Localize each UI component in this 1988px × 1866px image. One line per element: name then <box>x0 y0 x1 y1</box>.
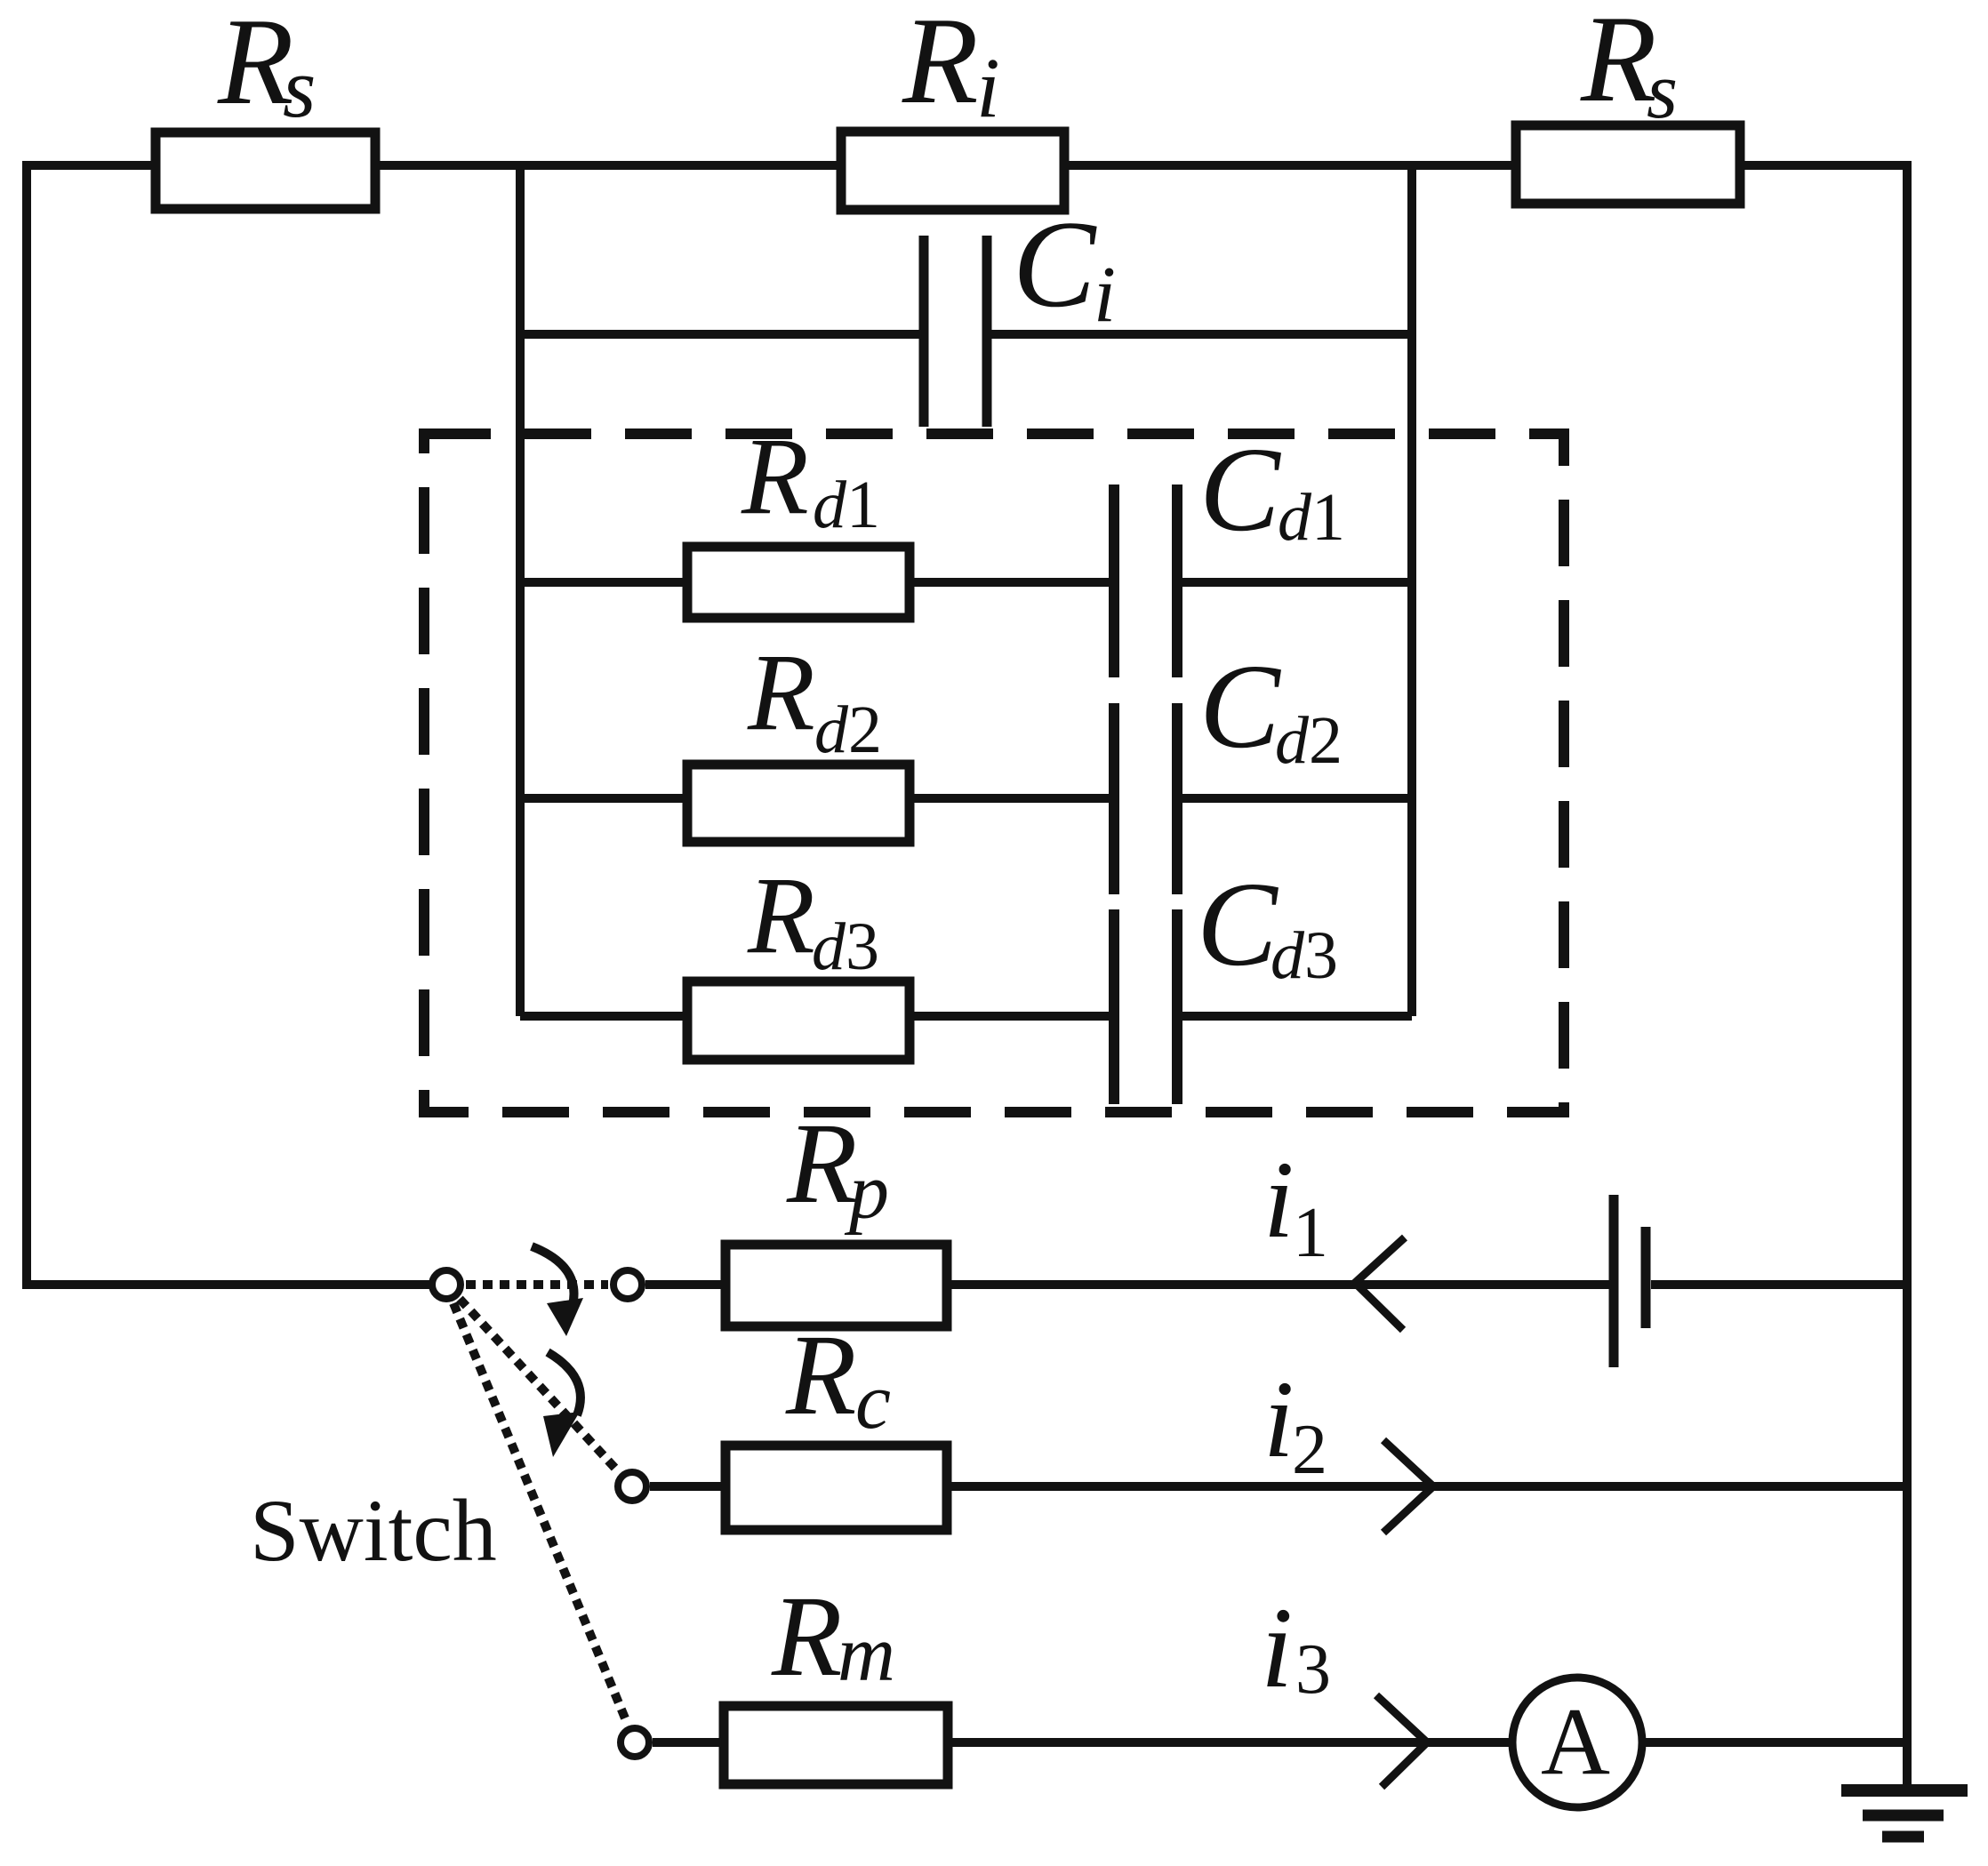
switch dashed link to position 3 <box>453 1303 628 1725</box>
wire right bus vertical <box>1407 165 1416 1016</box>
svg-text:R: R <box>771 1573 842 1701</box>
ammeter A <box>1512 1678 1642 1807</box>
svg-text:2: 2 <box>1309 703 1343 778</box>
wire branch 1 right <box>1181 578 1412 587</box>
wire i2 <box>650 1482 1907 1491</box>
wire top horizontal <box>22 161 1912 170</box>
resistor Rp <box>725 1245 947 1326</box>
svg-text:R: R <box>747 631 815 753</box>
svg-text:2: 2 <box>1292 1411 1327 1489</box>
svg-text:i: i <box>976 40 1000 135</box>
wire Ci right <box>990 330 1412 339</box>
wire right vertical <box>1903 161 1912 1790</box>
switch position 1 circle <box>613 1270 642 1299</box>
resistor Rd2 <box>687 765 910 842</box>
svg-text:C: C <box>1199 423 1281 557</box>
wire branch 3 left <box>520 1012 1111 1021</box>
svg-text:R: R <box>902 0 979 130</box>
svg-text:C: C <box>1013 196 1097 333</box>
wire i1 right of battery <box>1651 1280 1907 1289</box>
wire branch 3 right <box>1181 1012 1412 1021</box>
svg-text:c: c <box>855 1357 891 1446</box>
svg-text:R: R <box>1580 0 1657 128</box>
wire Ci left <box>520 330 921 339</box>
wire i3 left of ammeter <box>653 1738 1512 1747</box>
svg-text:R: R <box>786 1100 857 1228</box>
capacitor Cd2 plates <box>1109 703 1119 894</box>
resistor Rc <box>725 1446 947 1530</box>
resistor Ri <box>841 132 1064 210</box>
wire branch 2 right <box>1181 794 1412 803</box>
dashed box (electrode process) <box>424 434 1564 1112</box>
current arrow i1 <box>1355 1237 1405 1330</box>
svg-text:d: d <box>1271 918 1305 993</box>
svg-text:i: i <box>1094 251 1116 339</box>
svg-text:d: d <box>812 909 846 984</box>
resistor Rd3 <box>687 981 910 1060</box>
wire left bus vertical <box>516 165 525 1016</box>
capacitor Cd3 plates <box>1109 909 1119 1104</box>
svg-text:C: C <box>1197 858 1279 991</box>
switch common terminal circle <box>432 1270 461 1299</box>
wire branch 1 left <box>520 578 1111 587</box>
resistor Rm <box>724 1706 948 1784</box>
svg-text:s: s <box>283 40 316 135</box>
wire i3 right of ammeter <box>1642 1738 1907 1747</box>
svg-text:1: 1 <box>1311 480 1345 555</box>
svg-text:1: 1 <box>846 468 880 542</box>
svg-text:R: R <box>747 854 815 976</box>
capacitor Cd1 plates <box>1109 485 1119 677</box>
ground <box>1841 1790 1968 1837</box>
svg-text:2: 2 <box>848 693 882 767</box>
svg-text:p: p <box>844 1148 889 1236</box>
current arrow i2 <box>1383 1440 1433 1533</box>
svg-text:R: R <box>741 415 809 537</box>
svg-text:i: i <box>1263 1358 1294 1480</box>
wire left vertical <box>22 161 31 1289</box>
curved arrow 1 <box>532 1246 574 1305</box>
capacitor Ci plates <box>919 236 929 427</box>
switch position 2 circle <box>618 1472 646 1501</box>
svg-text:3: 3 <box>1295 1630 1331 1709</box>
svg-text:d: d <box>1278 480 1312 555</box>
resistor Rs (right) <box>1516 125 1740 204</box>
battery tall plate <box>1609 1195 1619 1367</box>
resistor Rd1 <box>687 547 910 618</box>
svg-text:Switch: Switch <box>250 1481 497 1580</box>
svg-text:3: 3 <box>846 909 879 984</box>
svg-text:d: d <box>814 693 849 767</box>
current arrow i3 <box>1376 1695 1427 1787</box>
resistor Rs (left) <box>156 132 375 209</box>
svg-text:1: 1 <box>1293 1194 1328 1272</box>
wire branch 2 left <box>520 794 1111 803</box>
switch dashed link to position 1 <box>466 1280 608 1289</box>
svg-text:i: i <box>1261 1584 1293 1712</box>
svg-text:R: R <box>785 1311 856 1439</box>
battery short plate <box>1641 1227 1651 1328</box>
svg-text:d: d <box>1275 703 1310 778</box>
switch dashed link to position 2 <box>460 1299 619 1472</box>
svg-text:i: i <box>1263 1139 1294 1261</box>
svg-text:3: 3 <box>1304 918 1338 993</box>
switch position 3 circle <box>621 1728 649 1757</box>
wire i1 left of battery <box>645 1280 1609 1289</box>
svg-text:d: d <box>813 468 847 542</box>
curved arrow 2 <box>548 1352 581 1415</box>
svg-text:A: A <box>1541 1689 1610 1795</box>
svg-text:s: s <box>1647 47 1678 135</box>
wire bottom-left horizontal to switch <box>22 1280 429 1289</box>
svg-text:m: m <box>838 1610 895 1698</box>
svg-text:C: C <box>1199 640 1281 773</box>
